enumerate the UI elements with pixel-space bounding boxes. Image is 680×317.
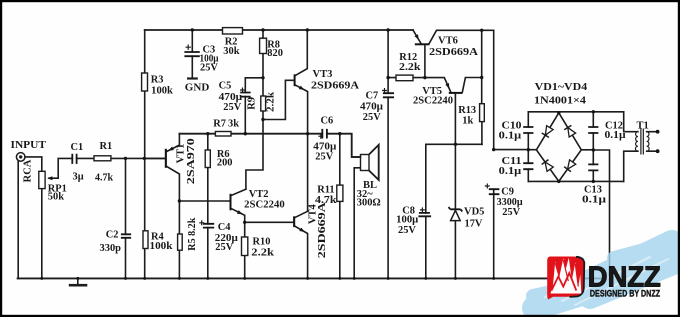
svg-text:RCA: RCA <box>22 159 33 182</box>
svg-text:C6: C6 <box>321 116 334 127</box>
svg-text:VT6: VT6 <box>438 36 458 47</box>
svg-text:R1: R1 <box>100 141 113 152</box>
svg-text:2SA970: 2SA970 <box>186 138 197 184</box>
svg-text:2SD669A: 2SD669A <box>317 202 328 259</box>
svg-text:25V: 25V <box>363 112 381 123</box>
svg-text:C5: C5 <box>219 81 232 92</box>
svg-text:0.1μ: 0.1μ <box>499 166 522 177</box>
svg-text:DESIGNED BY DNZZ: DESIGNED BY DNZZ <box>590 288 660 299</box>
svg-text:2.2k: 2.2k <box>399 62 421 73</box>
svg-text:3μ: 3μ <box>73 172 84 183</box>
svg-text:0.1μ: 0.1μ <box>499 130 522 141</box>
svg-text:100k: 100k <box>150 241 173 252</box>
svg-text:30k: 30k <box>223 46 239 57</box>
svg-text:2SC2240: 2SC2240 <box>244 199 285 210</box>
svg-text:2SD669A: 2SD669A <box>429 47 478 58</box>
svg-text:2SD669A: 2SD669A <box>311 81 359 92</box>
svg-text:VT1: VT1 <box>175 144 186 164</box>
svg-text:VT3: VT3 <box>313 69 333 80</box>
svg-text:300Ω: 300Ω <box>357 197 381 208</box>
svg-text:330p: 330p <box>100 243 122 254</box>
svg-text:C7: C7 <box>366 91 379 102</box>
svg-text:R11: R11 <box>317 185 334 196</box>
svg-text:2SC2240: 2SC2240 <box>413 96 453 107</box>
svg-text:0.1μ: 0.1μ <box>582 194 606 205</box>
svg-text:T1: T1 <box>637 120 649 131</box>
svg-text:3k: 3k <box>228 119 239 130</box>
svg-text:GND: GND <box>185 81 210 93</box>
svg-text:17V: 17V <box>465 218 483 229</box>
svg-text:25V: 25V <box>223 102 241 113</box>
svg-text:200: 200 <box>217 158 233 169</box>
svg-text:C4: C4 <box>218 222 231 233</box>
svg-text:R5 8.2k: R5 8.2k <box>187 217 198 250</box>
svg-text:VD1~VD4: VD1~VD4 <box>535 82 588 93</box>
svg-text:C2: C2 <box>106 230 119 241</box>
svg-text:820: 820 <box>267 48 283 59</box>
svg-text:R9: R9 <box>246 97 257 110</box>
svg-text:INPUT: INPUT <box>11 140 47 151</box>
svg-text:470μ: 470μ <box>360 102 383 113</box>
svg-text:50k: 50k <box>48 191 64 202</box>
svg-text:25V: 25V <box>215 242 233 253</box>
svg-text:25V: 25V <box>200 63 218 74</box>
svg-text:2.2k: 2.2k <box>265 92 276 112</box>
svg-text:C9: C9 <box>501 187 514 198</box>
svg-text:1N4001×4: 1N4001×4 <box>534 95 587 106</box>
svg-text:25V: 25V <box>502 207 520 218</box>
svg-text:25V: 25V <box>398 225 416 236</box>
svg-text:0.1μ: 0.1μ <box>605 130 626 141</box>
svg-text:25V: 25V <box>315 151 333 162</box>
svg-text:VD5: VD5 <box>464 207 484 218</box>
svg-text:R10: R10 <box>253 236 271 247</box>
svg-text:R7: R7 <box>213 119 226 130</box>
svg-text:C1: C1 <box>71 142 84 153</box>
svg-text:4.7k: 4.7k <box>95 173 113 184</box>
svg-text:R3: R3 <box>151 74 164 85</box>
svg-text:1k: 1k <box>462 115 473 126</box>
svg-text:2.2k: 2.2k <box>251 248 274 259</box>
svg-text:100k: 100k <box>151 85 173 96</box>
